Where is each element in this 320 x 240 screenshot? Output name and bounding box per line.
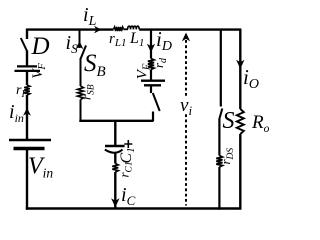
capacitor C1 curved plate bbox=[105, 150, 123, 153]
wire S branch top bbox=[220, 30, 222, 107]
wire bbox=[218, 119, 220, 156]
wire left rail top bbox=[26, 29, 28, 40]
wire bbox=[80, 58, 82, 86]
capacitor C1 top plate bbox=[105, 145, 125, 147]
wire bbox=[26, 71, 28, 85]
current arrow i_L on top rail bbox=[94, 26, 102, 34]
battery V_in plates bbox=[9, 139, 51, 141]
svg-text:VF: VF bbox=[30, 63, 48, 79]
wire bbox=[152, 112, 154, 122]
svg-text:Ro: Ro bbox=[251, 112, 269, 135]
switch S blade bbox=[219, 109, 222, 120]
resistor r_C1 bbox=[112, 164, 118, 173]
node arrow v_i dashed bbox=[185, 40, 187, 206]
wire right rail bottom bbox=[239, 134, 241, 210]
switch S_B blade bbox=[81, 46, 87, 60]
wire bbox=[26, 51, 28, 67]
switch blade (diode branch) bbox=[153, 93, 160, 111]
wire S_B top stub with current arrow bbox=[79, 30, 81, 48]
svg-text:iS: iS bbox=[66, 32, 79, 56]
inductor L1 bbox=[128, 26, 140, 29]
wire bbox=[114, 153, 116, 164]
current arrow i_O bbox=[236, 60, 244, 69]
svg-text:L1: L1 bbox=[129, 30, 144, 49]
wire bbox=[150, 85, 152, 93]
svg-text:VF: VF bbox=[135, 63, 153, 79]
svg-text:SB: SB bbox=[84, 50, 106, 80]
label v_i bbox=[181, 98, 191, 114]
current arrow i_in bbox=[23, 108, 31, 116]
svg-text:iD: iD bbox=[156, 27, 172, 54]
wire right rail with i_O bbox=[239, 29, 241, 110]
svg-text:S: S bbox=[223, 108, 235, 134]
resistor r_S bbox=[216, 156, 222, 168]
svg-text:iO: iO bbox=[243, 65, 259, 92]
wire bbox=[150, 70, 152, 81]
plus sign of C1 bbox=[124, 140, 132, 148]
wire cap branch top bbox=[114, 121, 116, 146]
wire middle connector bbox=[79, 120, 153, 122]
wire with i_C arrow bbox=[114, 172, 116, 208]
resistor r_d bbox=[148, 59, 154, 70]
svg-text:D: D bbox=[31, 33, 50, 60]
current arrow i_C bbox=[111, 198, 119, 207]
current arrow i_S bbox=[76, 41, 84, 49]
wire bbox=[218, 167, 220, 210]
resistor r_F bbox=[24, 85, 30, 95]
wire bbox=[80, 100, 82, 123]
resistor r_L1 bbox=[114, 27, 124, 31]
wire left rail bottom bbox=[26, 149, 28, 210]
svg-text:iin: iin bbox=[9, 101, 24, 125]
wire with i_in current bbox=[26, 95, 28, 140]
svg-text:iC: iC bbox=[121, 184, 136, 208]
battery V_F (diode D model) plates bbox=[17, 65, 37, 67]
current arrow i_D bbox=[147, 44, 155, 53]
svg-text:rL1: rL1 bbox=[109, 31, 126, 49]
svg-text:iL: iL bbox=[83, 4, 97, 29]
switch D blade bbox=[21, 38, 27, 51]
battery V_F (diode model) plates bbox=[141, 79, 165, 81]
resistor R_o bbox=[237, 109, 244, 134]
wire bottom rail bbox=[26, 207, 240, 209]
svg-text:Vin: Vin bbox=[28, 154, 53, 181]
resistor r_SB bbox=[78, 86, 84, 100]
wire top rail bbox=[26, 28, 113, 30]
wire i_D branch with current arrow bbox=[150, 29, 152, 59]
